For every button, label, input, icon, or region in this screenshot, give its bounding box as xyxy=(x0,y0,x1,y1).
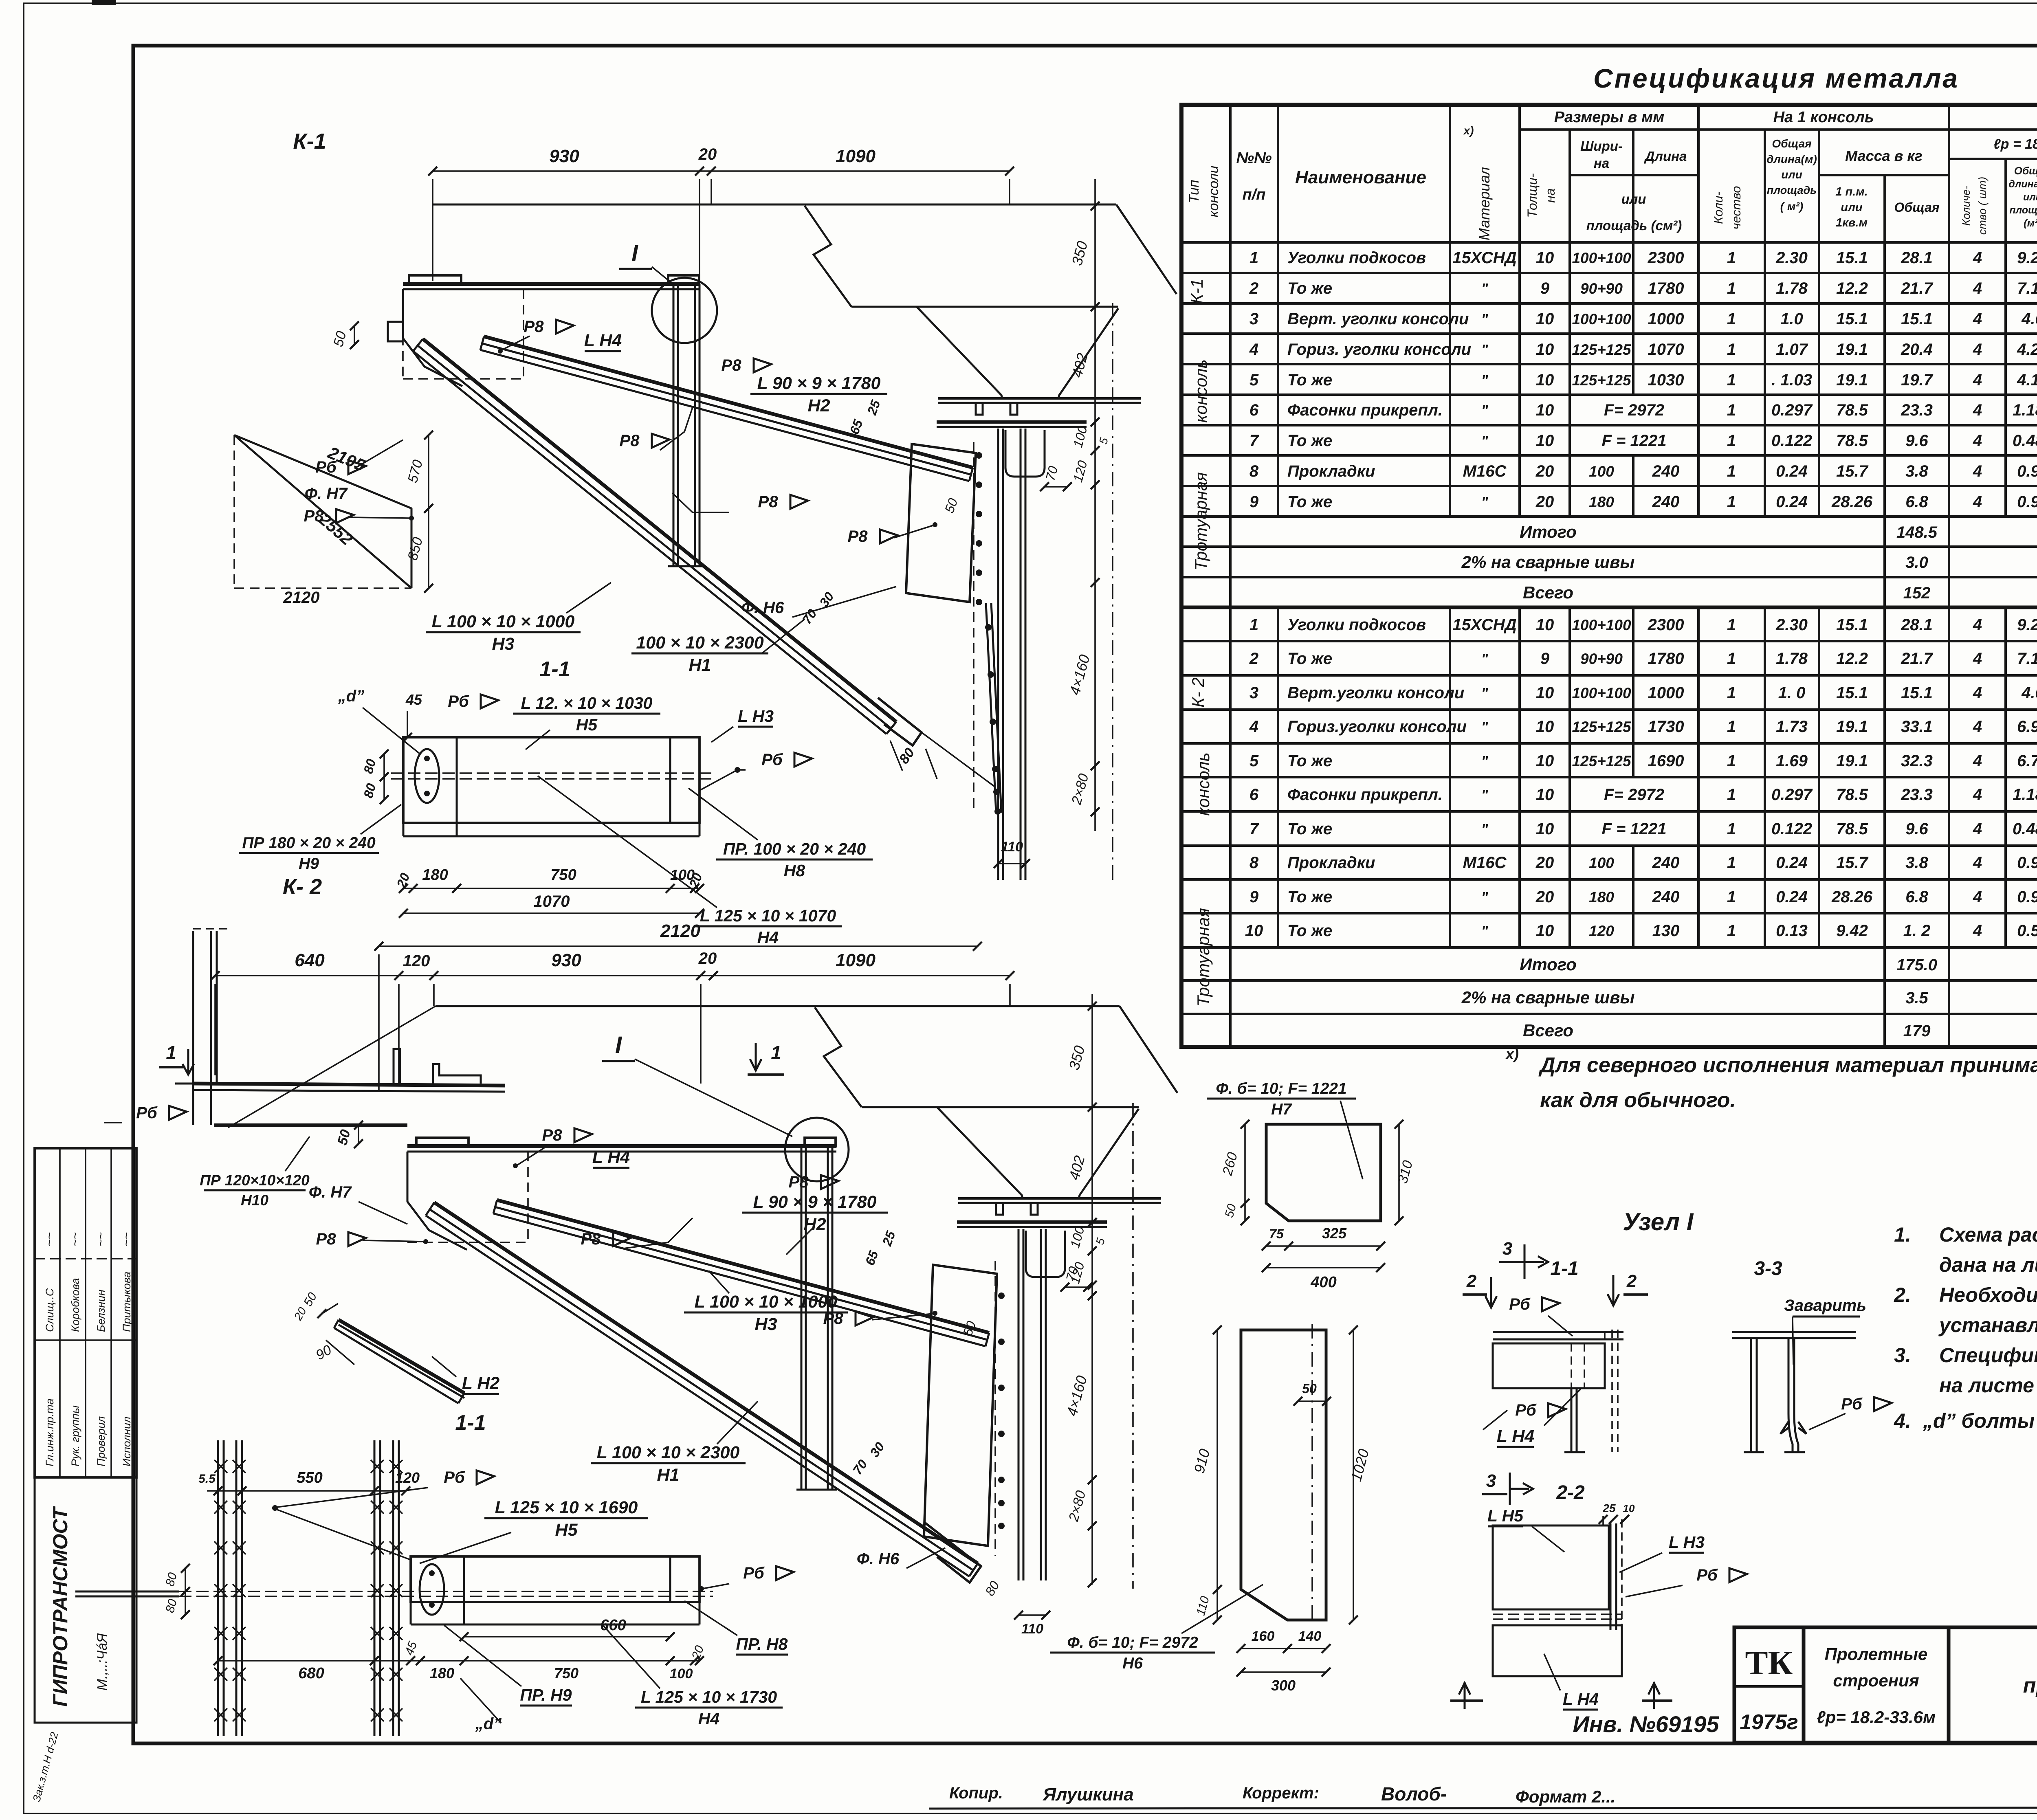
svg-text:45: 45 xyxy=(405,691,422,708)
svg-text:~~: ~~ xyxy=(120,1232,133,1246)
svg-text:120: 120 xyxy=(1589,923,1614,939)
svg-text:1: 1 xyxy=(1727,371,1736,389)
svg-text:1. 0: 1. 0 xyxy=(1778,684,1806,702)
svg-text:L Н3: L Н3 xyxy=(738,707,774,725)
svg-text:0.96: 0.96 xyxy=(2017,854,2037,872)
svg-text:Ф. Н7: Ф. Н7 xyxy=(309,1183,352,1201)
svg-text:1.69: 1.69 xyxy=(1776,752,1808,770)
svg-text:4.0: 4.0 xyxy=(2021,310,2037,328)
svg-text:2.: 2. xyxy=(1894,1284,1911,1306)
svg-text:К-1: К-1 xyxy=(293,129,326,154)
svg-text:То же: То же xyxy=(1287,820,1332,838)
svg-text:на: на xyxy=(1543,188,1557,202)
svg-text:Рб: Рб xyxy=(136,1104,158,1122)
svg-text:6.92: 6.92 xyxy=(2017,718,2037,736)
svg-text:длина (м): длина (м) xyxy=(2008,178,2037,190)
svg-text:дана на листе №21.: дана на листе №21. xyxy=(1939,1253,2037,1276)
svg-text:1090: 1090 xyxy=(836,146,876,166)
svg-text:4: 4 xyxy=(1973,718,1982,736)
svg-text:2120: 2120 xyxy=(660,921,700,941)
svg-text:28.1: 28.1 xyxy=(1901,616,1933,634)
svg-text:125+125: 125+125 xyxy=(1572,719,1631,735)
svg-text:1: 1 xyxy=(1727,786,1736,804)
svg-text:3.0: 3.0 xyxy=(1905,554,1928,571)
uzel 3-3 drawing xyxy=(1732,1331,1856,1333)
svg-text:ПР 120×10×120: ПР 120×10×120 xyxy=(200,1172,310,1189)
svg-text:240: 240 xyxy=(1652,888,1680,906)
svg-text:4: 4 xyxy=(1973,432,1982,450)
svg-text:L 125 × 10 × 1730: L 125 × 10 × 1730 xyxy=(641,1688,777,1706)
svg-text:То же: То же xyxy=(1287,650,1332,668)
svg-text:1: 1 xyxy=(1727,616,1736,634)
table summary row Итого xyxy=(1229,517,1232,547)
svg-text:Рб: Рб xyxy=(448,692,469,710)
svg-text:Р8: Р8 xyxy=(581,1230,601,1248)
svg-text:180: 180 xyxy=(1589,889,1614,906)
svg-text:": " xyxy=(1481,923,1488,939)
svg-text:Всего: Всего xyxy=(1523,1021,1573,1040)
svg-text:Исполнил: Исполнил xyxy=(121,1417,133,1466)
K-2 strut N1 end cut xyxy=(925,1523,981,1583)
svg-text:28.26: 28.26 xyxy=(1831,493,1873,511)
K-1 deck slab xyxy=(805,206,851,307)
K-1 bearing plate xyxy=(937,420,1087,424)
svg-text:15.1: 15.1 xyxy=(1836,310,1868,328)
svg-text:10: 10 xyxy=(1536,820,1554,838)
svg-text:4: 4 xyxy=(1973,616,1982,634)
svg-text:F= 2972: F= 2972 xyxy=(1604,401,1664,419)
svg-text:10: 10 xyxy=(1536,371,1554,389)
svg-text:9.6: 9.6 xyxy=(1905,432,1928,450)
table summary row Всего xyxy=(1229,577,1232,607)
svg-text:10: 10 xyxy=(1623,1502,1635,1514)
svg-text:1.188: 1.188 xyxy=(2013,401,2037,419)
svg-text:2: 2 xyxy=(1249,650,1258,668)
K-2 gusset N6 xyxy=(924,1265,997,1546)
svg-text:20: 20 xyxy=(1535,854,1554,872)
svg-text:Верт. уголки консоли: Верт. уголки консоли xyxy=(1287,310,1469,328)
svg-text:100: 100 xyxy=(670,1666,693,1682)
svg-text:10: 10 xyxy=(1536,401,1554,419)
table row 8 xyxy=(1229,846,1232,879)
svg-text:": " xyxy=(1481,341,1488,358)
svg-text:2120: 2120 xyxy=(283,589,320,607)
svg-text:L 125 × 10 × 1070: L 125 × 10 × 1070 xyxy=(700,906,836,925)
svg-text:2.30: 2.30 xyxy=(1775,616,1808,634)
bottom correction line xyxy=(929,1807,2037,1809)
svg-text:1: 1 xyxy=(1727,462,1736,480)
svg-text:1: 1 xyxy=(1727,854,1736,872)
svg-text:4: 4 xyxy=(1249,718,1258,736)
svg-text:33.1: 33.1 xyxy=(1901,718,1933,736)
svg-text:L Н5: L Н5 xyxy=(1487,1506,1524,1525)
svg-text:23.3: 23.3 xyxy=(1901,786,1933,804)
svg-text:Материал: Материал xyxy=(1476,167,1493,240)
svg-text:4: 4 xyxy=(1973,310,1982,328)
svg-text:0.488: 0.488 xyxy=(2013,820,2037,838)
table row 3 xyxy=(1229,675,1232,710)
svg-text:28.1: 28.1 xyxy=(1901,249,1933,267)
K-1 console top chord xyxy=(403,282,700,286)
svg-text:550: 550 xyxy=(297,1469,322,1486)
svg-text:1: 1 xyxy=(1727,432,1736,450)
svg-text:125+125: 125+125 xyxy=(1572,341,1631,358)
svg-text:10: 10 xyxy=(1536,922,1554,940)
svg-text:Притыкова: Притыкова xyxy=(121,1272,133,1332)
table row 1 xyxy=(1229,242,1232,273)
svg-text:Р8: Р8 xyxy=(789,1173,809,1191)
K-1 gusset N6 xyxy=(906,444,976,602)
svg-text:ГИПРОТРАНСМОСТ: ГИПРОТРАНСМОСТ xyxy=(49,1506,72,1707)
svg-text:2% на сварные швы: 2% на сварные швы xyxy=(1461,552,1635,571)
table outer box xyxy=(1181,105,2037,1047)
svg-text:110: 110 xyxy=(1021,1621,1043,1637)
svg-text:4.: 4. xyxy=(1894,1409,1911,1432)
svg-text:L Н3: L Н3 xyxy=(1669,1533,1705,1552)
svg-text:Ф. б= 10; F= 2972: Ф. б= 10; F= 2972 xyxy=(1067,1634,1198,1651)
svg-text:1070: 1070 xyxy=(534,892,570,910)
svg-text:9.6: 9.6 xyxy=(1905,820,1928,838)
svg-text:Заварить: Заварить xyxy=(1784,1297,1866,1314)
svg-text:ПР. 100 × 20 × 240: ПР. 100 × 20 × 240 xyxy=(723,840,866,858)
1-1 lower axis lines xyxy=(179,1591,713,1592)
svg-text:21.7: 21.7 xyxy=(1901,650,1934,668)
K-1 diagonal strut N2 xyxy=(484,336,973,468)
svg-text:19.1: 19.1 xyxy=(1836,752,1868,770)
svg-text:240: 240 xyxy=(1652,854,1680,872)
svg-text:строения: строения xyxy=(1833,1671,1919,1690)
svg-text:15.1: 15.1 xyxy=(1836,249,1868,267)
svg-text:9: 9 xyxy=(1540,279,1550,297)
svg-text:15.7: 15.7 xyxy=(1836,854,1869,872)
svg-text:Рб: Рб xyxy=(1509,1295,1531,1313)
svg-text:Общая: Общая xyxy=(2014,165,2037,177)
svg-text:1-1: 1-1 xyxy=(1550,1258,1578,1279)
svg-text:0.122: 0.122 xyxy=(1771,432,1812,450)
svg-text:110: 110 xyxy=(1001,839,1023,855)
svg-text:20: 20 xyxy=(1535,493,1554,511)
svg-text:2: 2 xyxy=(1626,1271,1637,1291)
svg-text:9.42: 9.42 xyxy=(1836,922,1868,940)
svg-text:3: 3 xyxy=(1249,684,1258,702)
svg-text:Шири-: Шири- xyxy=(1580,138,1623,154)
svg-text:100+100: 100+100 xyxy=(1572,617,1631,633)
svg-text:Необходимость устройства каб: Необходимость устройства кабельного коро… xyxy=(1939,1284,2037,1306)
svg-text:Н1: Н1 xyxy=(657,1465,680,1485)
svg-text:2% на сварные швы: 2% на сварные швы xyxy=(1461,988,1635,1007)
svg-text:78.5: 78.5 xyxy=(1836,820,1868,838)
svg-text:180: 180 xyxy=(430,1665,454,1682)
svg-text:Н2: Н2 xyxy=(808,396,830,415)
svg-text:179: 179 xyxy=(1903,1022,1931,1040)
svg-text:1: 1 xyxy=(1727,650,1736,668)
svg-text:консоль: консоль xyxy=(1194,752,1213,816)
svg-text:6.8: 6.8 xyxy=(1905,888,1928,906)
svg-text:20.4: 20.4 xyxy=(1901,341,1933,358)
svg-text:9: 9 xyxy=(1540,650,1550,668)
svg-text:Масса в кг: Масса в кг xyxy=(1845,147,1923,164)
svg-text:Узел I: Узел I xyxy=(1623,1208,1694,1235)
svg-text:1.73: 1.73 xyxy=(1776,718,1808,736)
svg-text:10: 10 xyxy=(1536,684,1554,702)
svg-text:": " xyxy=(1481,753,1488,769)
svg-text:1.78: 1.78 xyxy=(1776,279,1808,297)
K-1 girder web xyxy=(997,429,999,880)
svg-text:Коррект:: Коррект: xyxy=(1243,1784,1319,1802)
svg-text:1. 2: 1. 2 xyxy=(1903,922,1931,940)
table row 9 xyxy=(1229,879,1232,913)
1-1 lower left dims 80/80 xyxy=(185,1568,186,1591)
svg-text:15ХСНД: 15ХСНД xyxy=(1452,616,1516,634)
K-2 dim 110 bottom xyxy=(1018,1614,1046,1616)
svg-text:0.24: 0.24 xyxy=(1776,888,1808,906)
svg-text:Рб: Рб xyxy=(1696,1566,1718,1584)
svg-text:Р8: Р8 xyxy=(620,432,640,450)
svg-text:19.1: 19.1 xyxy=(1836,341,1868,358)
uzel 2-2 drawing xyxy=(1493,1525,1609,1609)
svg-text:Ф. Н6: Ф. Н6 xyxy=(857,1550,900,1568)
svg-text:": " xyxy=(1481,821,1488,837)
svg-text:6: 6 xyxy=(1249,786,1259,804)
svg-text:1.78: 1.78 xyxy=(1776,650,1808,668)
svg-text:4.0: 4.0 xyxy=(2021,684,2037,702)
svg-text:21.7: 21.7 xyxy=(1901,279,1934,297)
svg-text:100: 100 xyxy=(1589,463,1614,480)
svg-text:4: 4 xyxy=(1973,371,1982,389)
K-1 girder axis xyxy=(1112,303,1113,880)
svg-text:L Н4: L Н4 xyxy=(1497,1427,1534,1446)
svg-text:Н6: Н6 xyxy=(1122,1655,1143,1672)
svg-text:3: 3 xyxy=(1486,1471,1496,1491)
svg-text:То же: То же xyxy=(1287,752,1332,770)
svg-text:1.07: 1.07 xyxy=(1776,341,1808,358)
svg-text:То же: То же xyxy=(1287,922,1332,940)
svg-text:1.: 1. xyxy=(1894,1223,1911,1246)
svg-text:10: 10 xyxy=(1536,249,1554,267)
svg-text:Н10: Н10 xyxy=(241,1192,268,1209)
table row 5 xyxy=(1229,364,1232,395)
svg-text:1: 1 xyxy=(1727,684,1736,702)
svg-text:или: или xyxy=(2023,191,2037,203)
svg-text:Р8: Р8 xyxy=(823,1310,844,1328)
svg-text:F= 2972: F= 2972 xyxy=(1604,786,1664,804)
svg-text:125+125: 125+125 xyxy=(1572,753,1631,769)
svg-text:": " xyxy=(1481,372,1488,389)
svg-text:К- 2: К- 2 xyxy=(1188,677,1208,708)
svg-text:0.24: 0.24 xyxy=(1776,493,1808,511)
svg-text:12.2: 12.2 xyxy=(1836,279,1868,297)
svg-text:152: 152 xyxy=(1903,584,1931,602)
svg-text:1690: 1690 xyxy=(1648,752,1684,770)
K-2 right dim column xyxy=(1091,994,1093,1585)
svg-text:0.96: 0.96 xyxy=(2017,462,2037,480)
svg-text:930: 930 xyxy=(549,146,579,166)
svg-text:1000: 1000 xyxy=(1648,684,1684,702)
table row 7 xyxy=(1229,811,1232,846)
svg-text:660: 660 xyxy=(600,1617,626,1634)
K-1 left lug xyxy=(388,322,403,341)
svg-text:Н3: Н3 xyxy=(755,1314,777,1334)
svg-text:4: 4 xyxy=(1973,249,1982,267)
svg-text:Итого: Итого xyxy=(1520,955,1577,974)
svg-text:Волоб-: Волоб- xyxy=(1381,1783,1447,1805)
svg-text:„d” болты с двумя гайками: „d” болты с двумя гайками и шайбами. xyxy=(1923,1409,2037,1432)
svg-text:I: I xyxy=(631,240,638,266)
svg-text:9.20: 9.20 xyxy=(2017,616,2037,634)
svg-text:90+90: 90+90 xyxy=(1580,651,1623,667)
svg-text:100+100: 100+100 xyxy=(1572,250,1631,266)
svg-text:8: 8 xyxy=(1249,854,1259,872)
K-2 bearing seat xyxy=(1026,1231,1065,1277)
svg-text:на листе №25.: на листе №25. xyxy=(1939,1374,2037,1397)
N7 dims xyxy=(1244,1124,1246,1221)
svg-text:1070: 1070 xyxy=(1648,341,1684,358)
svg-text:20: 20 xyxy=(1535,462,1554,480)
svg-text:": " xyxy=(1481,433,1488,449)
svg-text:640: 640 xyxy=(295,950,325,970)
1-1 oval slot xyxy=(415,749,439,803)
K-1 bearing seat xyxy=(1005,430,1045,477)
small angle detail L N2 xyxy=(339,1320,464,1393)
K-2 console top chord xyxy=(407,1144,836,1148)
svg-text:100: 100 xyxy=(1589,855,1614,871)
svg-text:5: 5 xyxy=(1249,752,1259,770)
svg-text:х): х) xyxy=(1505,1046,1519,1062)
svg-text:": " xyxy=(1481,494,1488,510)
svg-text:Наименование: Наименование xyxy=(1295,167,1426,187)
svg-text:9: 9 xyxy=(1249,888,1259,906)
svg-text:Спецификация металла: Спецификация металла xyxy=(1593,63,1959,93)
svg-text:площадь: площадь xyxy=(2009,204,2037,216)
svg-text:F = 1221: F = 1221 xyxy=(1601,432,1666,450)
svg-text:19.1: 19.1 xyxy=(1836,371,1868,389)
K-2 vertical post N3 xyxy=(801,1146,803,1490)
K-2 dim 70 xyxy=(1065,1286,1088,1288)
svg-text:Гл.инж.пр.та: Гл.инж.пр.та xyxy=(44,1398,56,1466)
svg-text:1: 1 xyxy=(1727,279,1736,297)
title block ТК box xyxy=(1734,1627,1804,1743)
svg-text:": " xyxy=(1481,651,1488,667)
K-1 console pads xyxy=(409,275,461,284)
N6 dims xyxy=(1216,1330,1218,1589)
table summary row Всего xyxy=(1229,1014,1232,1047)
svg-text:2300: 2300 xyxy=(1648,249,1684,267)
svg-text:6.8: 6.8 xyxy=(1905,493,1928,511)
svg-text:5.5: 5.5 xyxy=(198,1472,216,1486)
svg-text:15.1: 15.1 xyxy=(1901,310,1933,328)
K-2 girder bottom flange xyxy=(958,1197,1161,1200)
svg-text:Инв. №69195: Инв. №69195 xyxy=(1573,1711,1720,1737)
svg-text:консоли: консоли xyxy=(1206,165,1221,217)
svg-text:9.20: 9.20 xyxy=(2017,249,2037,267)
K-1 top dimension line 930/20/1090 xyxy=(433,170,1010,172)
svg-text:148.5: 148.5 xyxy=(1896,523,1938,541)
svg-text:3.8: 3.8 xyxy=(1905,854,1928,872)
svg-text:120: 120 xyxy=(403,952,430,970)
svg-text:Гориз. уголки консоли: Гориз. уголки консоли xyxy=(1287,341,1471,358)
1-1 lower: left column flanges xyxy=(217,1440,219,1736)
svg-text:": " xyxy=(1481,280,1488,297)
svg-text:Тротуарная: Тротуарная xyxy=(1191,472,1210,571)
svg-text:300: 300 xyxy=(1271,1677,1296,1694)
svg-text:2.30: 2.30 xyxy=(1775,249,1808,267)
svg-text:Спецификация теталла на каб: Спецификация теталла на кабельные короба… xyxy=(1939,1344,2037,1367)
svg-text:или: или xyxy=(1841,201,1863,214)
svg-text:1 п.м.: 1 п.м. xyxy=(1835,185,1868,198)
K-1 girder bottom flange xyxy=(938,397,1141,400)
svg-text:1-1: 1-1 xyxy=(539,657,570,681)
svg-text:4: 4 xyxy=(1973,650,1982,668)
svg-text:ℓр = 18.2 м: ℓр = 18.2 м xyxy=(1993,136,2037,152)
svg-text:Длина: Длина xyxy=(1644,149,1687,164)
table row 9 xyxy=(1229,486,1232,517)
svg-text:100+100: 100+100 xyxy=(1572,311,1631,328)
svg-text:7.12: 7.12 xyxy=(2017,279,2037,297)
table summary row Итого xyxy=(1229,947,1232,980)
K-2 step angles xyxy=(394,1049,400,1084)
svg-text:2-2: 2-2 xyxy=(1556,1482,1585,1503)
svg-text:ℓр= 18.2-33.6м: ℓр= 18.2-33.6м xyxy=(1817,1708,1936,1727)
svg-text:32.3: 32.3 xyxy=(1901,752,1933,770)
svg-text:4: 4 xyxy=(1973,888,1982,906)
svg-text:Ф. Н6: Ф. Н6 xyxy=(741,599,784,617)
K-2 left column xyxy=(192,931,194,1125)
svg-text:1000: 1000 xyxy=(1648,310,1684,328)
svg-text:Р8: Р8 xyxy=(316,1230,337,1248)
svg-text:4: 4 xyxy=(1973,684,1982,702)
svg-text:Н3: Н3 xyxy=(492,634,515,654)
svg-text:Всего: Всего xyxy=(1523,583,1573,602)
svg-text:( м²): ( м²) xyxy=(1780,200,1803,213)
K-1 dim 70 xyxy=(1045,486,1067,488)
svg-text:Тип: Тип xyxy=(1186,180,1202,203)
K-2 gusset bolts xyxy=(998,1292,1005,1299)
svg-text:1030: 1030 xyxy=(1648,371,1684,389)
svg-text:1: 1 xyxy=(771,1042,781,1063)
K-2 dim 2120 xyxy=(379,945,977,947)
svg-text:": " xyxy=(1481,311,1488,328)
svg-text:1: 1 xyxy=(1727,401,1736,419)
svg-text:4: 4 xyxy=(1973,854,1982,872)
svg-text:0.13: 0.13 xyxy=(1776,922,1808,940)
svg-text:3.8: 3.8 xyxy=(1905,462,1928,480)
left margin stamp block xyxy=(35,1148,136,1477)
svg-text:1: 1 xyxy=(1727,888,1736,906)
svg-text:К-1: К-1 xyxy=(1187,279,1206,304)
svg-text:6.76: 6.76 xyxy=(2017,752,2037,770)
svg-text:Н8: Н8 xyxy=(784,861,805,880)
table row 1 xyxy=(1229,607,1232,641)
svg-text:0.96: 0.96 xyxy=(2017,493,2037,511)
svg-text:. 1.03: . 1.03 xyxy=(1771,371,1812,389)
svg-text:Толщи-: Толщи- xyxy=(1525,173,1540,218)
svg-text:4: 4 xyxy=(1973,462,1982,480)
svg-text:на: на xyxy=(1594,156,1609,171)
svg-text:„d”: „d” xyxy=(338,687,364,705)
svg-text:0.24: 0.24 xyxy=(1776,462,1808,480)
svg-text:160: 160 xyxy=(1252,1629,1275,1644)
svg-text:М16С: М16С xyxy=(1463,462,1507,480)
svg-text:То же: То же xyxy=(1287,279,1332,297)
svg-text:Рб: Рб xyxy=(1515,1401,1537,1419)
svg-text:Количе-: Количе- xyxy=(1960,186,1972,226)
svg-text:1: 1 xyxy=(1727,310,1736,328)
K-1 node I circle xyxy=(652,278,717,343)
svg-text:1: 1 xyxy=(1727,718,1736,736)
K-2 diagonal strut N1 xyxy=(434,1202,978,1563)
svg-text:0.52: 0.52 xyxy=(2017,922,2037,940)
1-1 lower top dims xyxy=(207,1490,406,1492)
